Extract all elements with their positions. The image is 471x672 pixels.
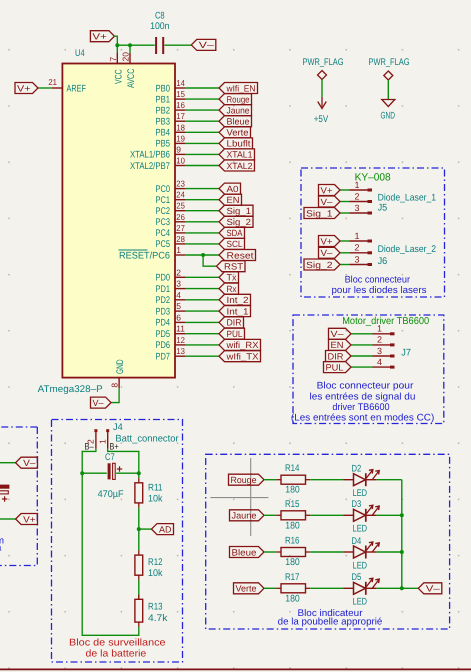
svg-text:V–: V– [23, 458, 35, 468]
svg-text:PD5: PD5 [156, 329, 171, 340]
svg-text:J4: J4 [113, 422, 123, 433]
crosshair cursor [210, 458, 268, 536]
wire PD3 to label [186, 310, 219, 312]
node Sig_2 J6 [304, 259, 340, 270]
LED D2 [344, 464, 380, 500]
svg-text:4.7k: 4.7k [148, 613, 168, 624]
wire D5 to rail [376, 587, 401, 589]
svg-text:D2: D2 [352, 464, 362, 475]
svg-text:R16: R16 [285, 536, 300, 547]
pin 4 PD2 [156, 290, 186, 306]
svg-text:XTAL2: XTAL2 [227, 161, 253, 171]
pin 5 PD3 [156, 301, 186, 317]
svg-text:R12: R12 [148, 557, 163, 568]
wire R16 to D4 [310, 551, 343, 553]
svg-text:C7: C7 [105, 452, 115, 463]
svg-text:5: 5 [176, 301, 181, 311]
wire Bleue to R16 [264, 551, 276, 553]
svg-text:26: 26 [176, 212, 185, 222]
TB6600 caption [291, 381, 434, 424]
svg-text:470µF: 470µF [98, 489, 124, 500]
node PUL J7 [324, 362, 352, 373]
node Int_1 [219, 306, 251, 317]
pin 21 AREF [48, 77, 86, 94]
KY-008 block border [301, 168, 445, 297]
wire R14 to D2 [310, 479, 343, 481]
node A0 [219, 183, 241, 194]
wire V+ J6 [340, 240, 349, 242]
TB6600 block border [293, 315, 444, 424]
node Sig_1 [219, 205, 253, 216]
svg-text:PB1: PB1 [156, 94, 171, 105]
svg-text:wIfi_EN: wIfi_EN [226, 83, 256, 93]
svg-text:Sig_1: Sig_1 [306, 208, 333, 218]
svg-text:VCC: VCC [113, 69, 124, 84]
svg-text:V–: V– [321, 197, 333, 207]
wire R12 to R13 [138, 580, 140, 599]
wire PD2 to label [186, 299, 219, 301]
svg-text:LED: LED [353, 488, 368, 499]
pin 14 PB0 [156, 78, 186, 94]
wire GND pin to V- [111, 388, 119, 402]
svg-text:15: 15 [176, 89, 185, 99]
wire B+ to R11 rail [108, 449, 139, 473]
pin 9 XTAL1/PB6 [130, 144, 186, 160]
node Lbuflt [219, 138, 253, 149]
svg-text:21: 21 [48, 77, 57, 87]
J6 fields [378, 244, 437, 267]
svg-text:de la poubelle approprié: de la poubelle approprié [278, 616, 383, 627]
svg-text:Rouge: Rouge [231, 475, 257, 485]
power flag PWR_FLAG +5V [303, 57, 344, 125]
svg-text:(Les entrées sont en modes CC): (Les entrées sont en modes CC) [291, 413, 434, 424]
svg-text:C8: C8 [155, 11, 165, 22]
svg-text:B–: B– [84, 442, 94, 452]
svg-text:V+: V+ [321, 185, 333, 195]
pin 26 PC3 [156, 212, 186, 228]
junction rail D3 [400, 513, 404, 517]
pin 27 PC4 [156, 223, 186, 239]
svg-text:V+: V+ [17, 83, 31, 93]
wire AVCC pin drop [129, 45, 131, 53]
svg-text:Bloc de surveillance: Bloc de surveillance [69, 638, 166, 649]
svg-text:AVCC: AVCC [126, 69, 137, 88]
svg-text:1: 1 [354, 180, 359, 190]
junction rail D4 [400, 550, 404, 554]
svg-text:driver TB6600: driver TB6600 [332, 402, 389, 413]
capacitor C7 [98, 452, 124, 500]
svg-text:J7: J7 [401, 348, 411, 359]
node Verte (LED row) [234, 583, 265, 594]
wire cap row right [116, 472, 139, 474]
svg-text:28: 28 [176, 234, 185, 244]
svg-text:D3: D3 [352, 499, 362, 510]
svg-text:XTAL2/PB7: XTAL2/PB7 [130, 161, 170, 172]
wire D2 to rail [376, 479, 401, 481]
wire XTAL2/PB7 to label [186, 165, 219, 167]
wire PC5 to label [186, 243, 219, 245]
svg-text:25: 25 [176, 201, 185, 211]
svg-text:V+: V+ [23, 514, 35, 524]
svg-text:3: 3 [377, 346, 382, 356]
wire PC2 to label [186, 210, 219, 212]
node Int_2 [219, 294, 251, 305]
svg-text:Jaune: Jaune [227, 105, 250, 115]
node Bleue [219, 116, 252, 127]
svg-text:LED: LED [353, 560, 368, 571]
pin 28 PC5 [156, 234, 186, 250]
svg-text:1: 1 [354, 231, 359, 241]
node V&#8211; J7 [329, 328, 352, 339]
resistor R17 [276, 572, 310, 605]
svg-text:R14: R14 [285, 463, 300, 474]
wire PC1 to label [186, 199, 219, 201]
svg-text:Rx: Rx [227, 284, 237, 294]
wire PD5 to label [186, 333, 219, 335]
svg-text:Bloc connecteur pour: Bloc connecteur pour [317, 381, 415, 392]
svg-text:V+: V+ [321, 236, 333, 246]
svg-text:Bleue: Bleue [232, 547, 257, 557]
junction cap right [137, 471, 141, 475]
svg-text:8: 8 [110, 383, 120, 388]
wire D3 to rail [376, 514, 401, 516]
svg-text:14: 14 [176, 78, 185, 88]
svg-text:180: 180 [285, 485, 300, 496]
svg-text:PD0: PD0 [156, 273, 171, 284]
node wifi_RX [219, 339, 261, 350]
wire Jaune to R15 [264, 514, 276, 516]
resistor R11 [135, 478, 163, 508]
svg-text:SDA: SDA [227, 228, 243, 238]
power flag PWR_FLAG GND [369, 57, 410, 122]
resistor R14 [276, 463, 310, 496]
pin 17 PB3 [156, 111, 186, 127]
svg-text:Sig_1: Sig_1 [227, 206, 252, 216]
node V+ J5 [319, 185, 341, 196]
svg-text:180: 180 [285, 593, 300, 604]
svg-text:KY–008: KY–008 [355, 172, 391, 184]
node V&#8211; J6 [319, 247, 341, 258]
pin 7 VCC [108, 53, 125, 84]
junction AVCC pin20 [128, 43, 132, 47]
power flag V+ (AREF) [15, 83, 38, 94]
pin 10 XTAL2/PB7 [130, 156, 186, 172]
svg-text:12: 12 [176, 335, 185, 345]
svg-text:1: 1 [377, 324, 382, 334]
svg-text:Sig_2: Sig_2 [306, 260, 333, 270]
wire to V- left [0, 462, 16, 464]
wire PC0 to label [186, 188, 219, 190]
svg-text:PB2: PB2 [156, 105, 171, 116]
wire VCC pin drop [116, 45, 118, 53]
svg-text:V–: V– [321, 248, 333, 258]
LED D5 [344, 572, 380, 608]
pin 8 GND [110, 359, 126, 388]
pin 13 PD7 [156, 346, 186, 362]
wire PD0 to label [186, 276, 219, 278]
LED block border [206, 454, 450, 629]
power flag V- (top) [191, 39, 216, 50]
svg-text:Reset: Reset [227, 250, 255, 260]
LED D3 [344, 499, 380, 535]
node Verte [219, 127, 251, 138]
svg-text:D5: D5 [352, 572, 362, 583]
connector J7 pins [373, 324, 395, 368]
svg-text:PWR_FLAG: PWR_FLAG [369, 57, 410, 68]
wire V&#8211; J7 [351, 333, 373, 335]
node Rouge [219, 94, 252, 105]
svg-text:wifi_RX: wifi_RX [225, 340, 258, 350]
sheet border line [0, 668, 471, 670]
wire V&#8211; J6 [340, 252, 349, 254]
svg-text:PC4: PC4 [156, 228, 171, 239]
wire PUL J7 [351, 366, 373, 368]
svg-text:GND: GND [380, 111, 395, 122]
svg-text:10k: 10k [148, 568, 163, 579]
left block border [0, 427, 37, 566]
svg-text:2: 2 [176, 267, 181, 277]
node wIfi_TX [219, 351, 261, 362]
svg-text:pour les diodes lasers: pour les diodes lasers [332, 285, 427, 296]
svg-text:Diode_Laser_2: Diode_Laser_2 [378, 244, 437, 255]
wire Sig_2 J6 [340, 264, 349, 266]
node DIR [219, 317, 244, 328]
node V+ J6 [319, 236, 341, 247]
pin 3 PD1 [156, 279, 186, 295]
svg-text:18: 18 [176, 122, 185, 132]
svg-text:180: 180 [285, 557, 300, 568]
wire PB0 to label [186, 87, 219, 89]
svg-text:Jaune: Jaune [232, 511, 257, 521]
node EN J7 [329, 339, 352, 350]
pin 25 PC2 [156, 201, 186, 217]
svg-text:R11: R11 [148, 482, 163, 493]
svg-text:PD4: PD4 [156, 318, 171, 329]
left block caption fragment [0, 536, 4, 554]
wire R11 to AD [138, 508, 140, 529]
wire PD7 to label [186, 355, 219, 357]
node Reset [219, 250, 256, 261]
wire Verte to R17 [264, 587, 276, 589]
node AD [152, 524, 174, 535]
connector J5 pins [349, 180, 372, 213]
svg-text:J5: J5 [378, 203, 388, 214]
svg-text:D4: D4 [352, 536, 362, 547]
svg-text:Tx: Tx [227, 273, 237, 283]
svg-text:ATmega328–P: ATmega328–P [38, 384, 103, 395]
svg-text:20: 20 [121, 52, 131, 62]
battery block border [52, 420, 183, 663]
node SDA [219, 227, 245, 238]
node wIfi_EN [219, 83, 258, 94]
power flag V- (left edge) [16, 457, 38, 468]
resistor R15 [276, 499, 310, 532]
svg-text:EN: EN [227, 195, 240, 205]
KY-008 caption [332, 275, 427, 297]
svg-text:27: 27 [176, 223, 185, 233]
svg-text:+5V: +5V [314, 114, 329, 125]
wire AD label [139, 528, 152, 530]
svg-text:2: 2 [354, 191, 359, 201]
junction VCC pin7 [115, 43, 119, 47]
svg-text:Verte: Verte [227, 128, 249, 138]
resistor R16 [276, 536, 310, 569]
pin 6 PD4 [156, 312, 186, 328]
wire AD to R12 [138, 529, 140, 550]
svg-text:R17: R17 [285, 572, 300, 583]
svg-text:PUL: PUL [227, 329, 243, 339]
node Sig_2 [219, 216, 253, 227]
svg-text:EN: EN [331, 340, 344, 350]
svg-text:XTAL1/PB6: XTAL1/PB6 [130, 150, 170, 161]
svg-text:RESET/PC6: RESET/PC6 [119, 250, 170, 261]
svg-text:Lbuflt: Lbuflt [227, 139, 252, 149]
svg-text:Sig_2: Sig_2 [227, 217, 252, 227]
svg-text:PD3: PD3 [156, 306, 171, 317]
node Rouge (LED row) [229, 474, 265, 485]
wire PB2 to label [186, 109, 219, 111]
svg-text:13: 13 [176, 346, 185, 356]
svg-text:1: 1 [176, 245, 181, 255]
svg-text:19: 19 [176, 133, 185, 143]
wire RESET/PC6 to label [186, 254, 219, 256]
connector J6 pins [349, 231, 372, 265]
svg-text:Int_2: Int_2 [227, 295, 249, 305]
wire PD6 to label [186, 344, 219, 346]
wire PD1 to label [186, 288, 219, 290]
pin 20 AVCC [121, 52, 137, 88]
junction Reset/RST [201, 253, 205, 257]
svg-text:R13: R13 [148, 601, 163, 612]
svg-text:Motor_driver TB6600: Motor_driver TB6600 [342, 316, 429, 327]
wire DIR J7 [351, 355, 373, 357]
svg-text:LED: LED [353, 524, 368, 535]
svg-text:GND: GND [115, 359, 126, 374]
wire PB1 to label [186, 98, 219, 100]
wire PB4 to label [186, 131, 219, 133]
svg-text:7: 7 [108, 57, 118, 62]
svg-text:PC1: PC1 [156, 195, 171, 206]
svg-text:PD2: PD2 [156, 295, 171, 306]
svg-text:2: 2 [377, 335, 382, 345]
LED D4 [344, 536, 380, 572]
svg-text:U4: U4 [75, 48, 85, 59]
svg-text:PB3: PB3 [156, 117, 171, 128]
svg-text:23: 23 [176, 179, 185, 189]
svg-text:RST: RST [224, 262, 244, 272]
node RST [217, 261, 246, 272]
wire B- to left rail [82, 449, 139, 636]
pin 24 PC1 [156, 190, 186, 206]
svg-text:XTAL1: XTAL1 [227, 150, 253, 160]
wire PB3 to label [186, 120, 219, 122]
junction rail D5 [400, 586, 404, 590]
svg-text:J6: J6 [378, 256, 388, 267]
node Jaune [219, 105, 252, 116]
wire R15 to D3 [310, 514, 343, 516]
svg-text:Batt_connector: Batt_connector [115, 433, 179, 444]
pin 15 PB1 [156, 89, 186, 105]
capacitor (left edge, cut) [0, 485, 9, 502]
node DIR J7 [326, 351, 352, 362]
resistor R13 [135, 595, 168, 627]
pin 23 PC0 [156, 179, 186, 195]
svg-text:V–: V– [426, 584, 440, 594]
svg-text:Rouge: Rouge [227, 94, 250, 104]
wire rail to V- [402, 587, 419, 589]
pin 18 PB4 [156, 122, 186, 138]
svg-text:Int_1: Int_1 [227, 306, 249, 316]
svg-text:V–: V– [199, 40, 214, 50]
svg-text:Verte: Verte [236, 584, 257, 594]
svg-text:4: 4 [176, 290, 181, 300]
power flag V- (LED rail) [418, 583, 442, 594]
node SCL [219, 238, 245, 249]
svg-text:AD: AD [159, 524, 172, 534]
svg-text:1: 1 [97, 439, 107, 444]
svg-text:Bloc connecteur: Bloc connecteur [345, 275, 411, 286]
svg-text:PC3: PC3 [156, 217, 171, 228]
connector J4 Batt_connector [84, 422, 179, 452]
node Jaune (LED row) [230, 510, 265, 521]
pin 11 PD5 [156, 324, 186, 340]
wire V&#8211; J5 [340, 201, 349, 203]
wire to V+ left [0, 518, 16, 520]
pin 12 PD6 [156, 335, 186, 351]
wire cap row left [82, 472, 107, 474]
pin 1 RESET/PC6 [119, 245, 186, 261]
LED block caption [278, 608, 383, 627]
svg-text:17: 17 [176, 111, 185, 121]
IC U4 ATmega328-P body [62, 64, 175, 378]
pin 2 PD0 [156, 267, 186, 283]
svg-text:180: 180 [285, 520, 300, 531]
svg-text:wIfi_TX: wIfi_TX [225, 352, 258, 362]
wire Rouge to R14 [264, 479, 276, 481]
svg-text:10: 10 [176, 156, 185, 166]
svg-text:PUL: PUL [326, 362, 344, 372]
svg-text:2: 2 [354, 243, 359, 253]
svg-text:Bleue: Bleue [227, 117, 250, 127]
svg-text:AREF: AREF [67, 83, 87, 94]
svg-text:3: 3 [354, 203, 359, 213]
svg-text:24: 24 [176, 190, 185, 200]
wire C8 to V- [165, 44, 192, 46]
wire PB5 to label [186, 142, 219, 144]
pin 16 PB2 [156, 100, 186, 116]
wire V+ J5 [340, 189, 349, 191]
svg-text:les entrées de signal du: les entrées de signal du [310, 391, 416, 402]
capacitor C8 [150, 11, 169, 55]
node Rx [219, 283, 239, 294]
wire XTAL1/PB6 to label [186, 153, 219, 155]
wire Sig_1 J5 [340, 212, 349, 214]
wire V+ to VCC rail [114, 36, 117, 45]
pin 19 PB5 [156, 133, 186, 149]
svg-text:PD7: PD7 [156, 352, 171, 363]
svg-text:PC5: PC5 [156, 239, 171, 250]
wire EN J7 [351, 344, 373, 346]
wire V+ to AREF [38, 87, 52, 89]
svg-text:16: 16 [176, 100, 185, 110]
wire RST elbow [203, 255, 216, 266]
node Sig_1 J5 [304, 208, 340, 219]
node Bleue (LED row) [230, 547, 265, 558]
wire R17 to D5 [310, 587, 343, 589]
junction cap left [80, 471, 84, 475]
node Tx [219, 272, 239, 283]
wire PC4 to label [186, 232, 219, 234]
